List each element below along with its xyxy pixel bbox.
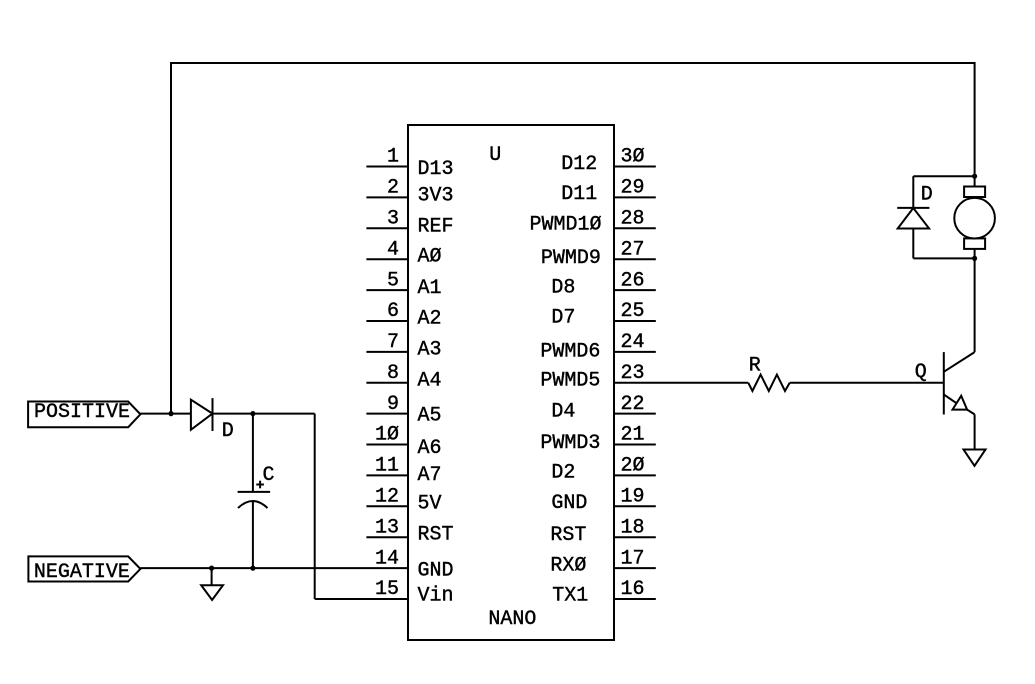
svg-text:8: 8 bbox=[387, 362, 399, 385]
svg-text:RST: RST bbox=[550, 524, 586, 547]
svg-text:1Ø: 1Ø bbox=[375, 424, 399, 447]
svg-text:A5: A5 bbox=[418, 404, 442, 427]
svg-text:A4: A4 bbox=[418, 369, 442, 392]
svg-text:6: 6 bbox=[387, 300, 399, 323]
svg-text:14: 14 bbox=[375, 547, 399, 570]
svg-text:2: 2 bbox=[387, 177, 399, 200]
svg-text:3Ø: 3Ø bbox=[621, 146, 645, 169]
svg-text:3: 3 bbox=[387, 208, 399, 231]
svg-text:D13: D13 bbox=[418, 158, 454, 181]
svg-text:28: 28 bbox=[621, 208, 645, 231]
svg-text:Q: Q bbox=[915, 361, 927, 384]
svg-text:21: 21 bbox=[621, 424, 645, 447]
svg-text:1: 1 bbox=[387, 146, 399, 169]
svg-text:RXØ: RXØ bbox=[550, 554, 586, 577]
svg-text:5V: 5V bbox=[418, 492, 442, 515]
svg-text:16: 16 bbox=[621, 578, 645, 601]
svg-text:PWMD9: PWMD9 bbox=[541, 247, 601, 270]
svg-text:U: U bbox=[489, 144, 501, 167]
svg-text:13: 13 bbox=[375, 516, 399, 539]
svg-text:24: 24 bbox=[621, 331, 645, 354]
svg-text:11: 11 bbox=[375, 455, 399, 478]
svg-text:PWMD6: PWMD6 bbox=[540, 340, 600, 363]
svg-text:7: 7 bbox=[387, 331, 399, 354]
svg-text:GND: GND bbox=[418, 560, 454, 583]
svg-text:A7: A7 bbox=[418, 464, 442, 487]
svg-text:NEGATIVE: NEGATIVE bbox=[34, 561, 130, 584]
svg-text:12: 12 bbox=[375, 486, 399, 509]
svg-text:POSITIVE: POSITIVE bbox=[34, 401, 130, 424]
svg-text:D2: D2 bbox=[551, 462, 575, 485]
svg-text:D: D bbox=[222, 420, 234, 443]
svg-text:4: 4 bbox=[387, 238, 399, 261]
svg-text:D11: D11 bbox=[561, 183, 597, 206]
svg-text:19: 19 bbox=[621, 486, 645, 509]
svg-text:RST: RST bbox=[418, 523, 454, 546]
svg-text:15: 15 bbox=[375, 578, 399, 601]
svg-text:9: 9 bbox=[387, 393, 399, 416]
svg-text:A1: A1 bbox=[418, 277, 442, 300]
svg-text:PWMD1Ø: PWMD1Ø bbox=[530, 214, 602, 237]
svg-text:A6: A6 bbox=[418, 437, 442, 460]
svg-text:REF: REF bbox=[418, 215, 454, 238]
svg-text:D12: D12 bbox=[561, 153, 597, 176]
svg-text:18: 18 bbox=[621, 516, 645, 539]
svg-text:PWMD5: PWMD5 bbox=[540, 369, 600, 392]
svg-text:26: 26 bbox=[621, 269, 645, 292]
svg-text:D4: D4 bbox=[551, 400, 575, 423]
svg-text:A3: A3 bbox=[418, 339, 442, 362]
svg-text:5: 5 bbox=[387, 269, 399, 292]
svg-text:25: 25 bbox=[621, 300, 645, 323]
svg-text:GND: GND bbox=[551, 492, 587, 515]
svg-text:PWMD3: PWMD3 bbox=[540, 432, 600, 455]
svg-text:22: 22 bbox=[621, 393, 645, 416]
svg-text:3V3: 3V3 bbox=[418, 184, 454, 207]
svg-text:AØ: AØ bbox=[418, 246, 442, 269]
svg-text:2Ø: 2Ø bbox=[621, 455, 645, 478]
svg-text:A2: A2 bbox=[418, 308, 442, 331]
svg-text:23: 23 bbox=[621, 362, 645, 385]
svg-text:D8: D8 bbox=[551, 276, 575, 299]
svg-text:R: R bbox=[749, 355, 761, 378]
svg-text:NANO: NANO bbox=[488, 608, 536, 631]
svg-text:27: 27 bbox=[621, 238, 645, 261]
svg-text:Vin: Vin bbox=[418, 585, 454, 608]
svg-text:C: C bbox=[263, 464, 275, 487]
svg-text:17: 17 bbox=[621, 547, 645, 570]
svg-text:D: D bbox=[921, 184, 933, 207]
svg-text:D7: D7 bbox=[551, 306, 575, 329]
svg-text:29: 29 bbox=[621, 177, 645, 200]
svg-text:TX1: TX1 bbox=[552, 585, 588, 608]
